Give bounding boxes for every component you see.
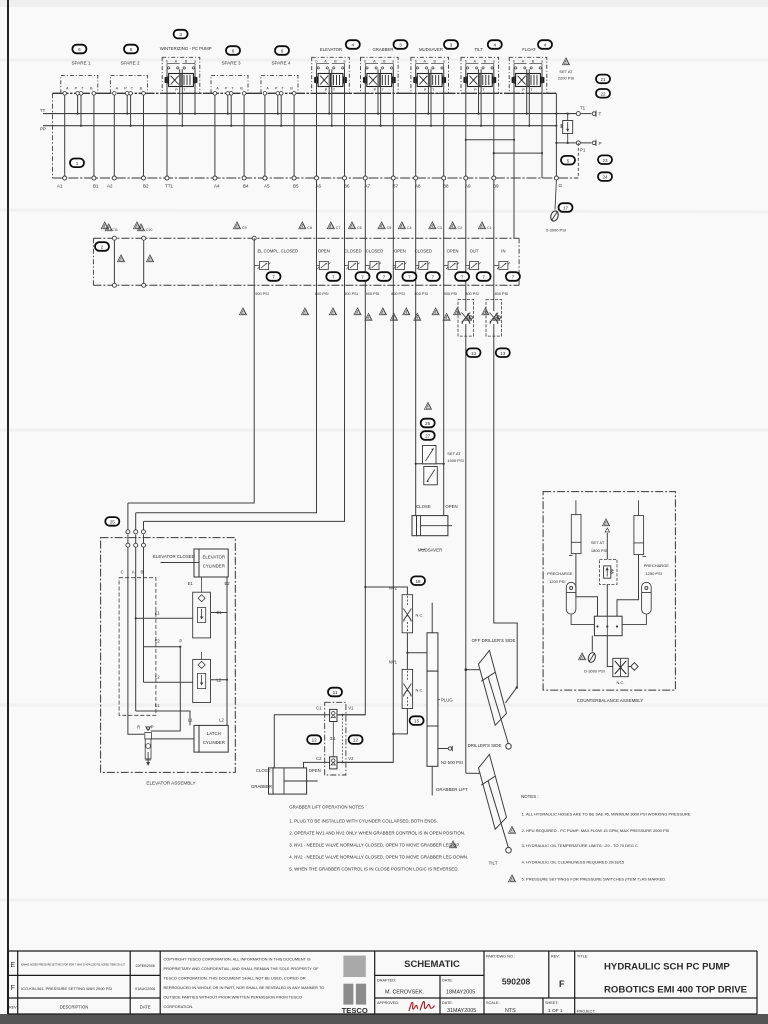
- scan left edge line: [7, 0, 9, 1016]
- balloon 12 right: [349, 735, 363, 744]
- node G: [554, 176, 558, 180]
- accumulator left: [566, 582, 594, 624]
- valve station FLOAT: [509, 57, 547, 93]
- hose break nodes at box entry: [126, 530, 146, 547]
- node T1: [576, 112, 580, 116]
- valve NC shutoff: [607, 636, 613, 667]
- balloon 12 left: [307, 735, 321, 744]
- wire A9 tilt line: [465, 69, 467, 773]
- wire A9 to cyl1 port: [466, 669, 481, 671]
- wire left closure: [52, 93, 54, 178]
- pressure switch CLOSED (mudsaver): [403, 249, 440, 321]
- port N2: [438, 748, 448, 750]
- wire spare1 A drop: [64, 95, 66, 178]
- valve station TILT: [461, 57, 499, 93]
- wire float B drop: [541, 69, 543, 178]
- wire mudsaver P stub: [430, 69, 432, 125]
- wire A7 to NV column: [365, 587, 407, 595]
- wire T1 to T port: [578, 113, 591, 115]
- wire spare4 T stub: [280, 95, 282, 126]
- pilot lines: [332, 722, 334, 757]
- valve crossport relief: [415, 446, 445, 485]
- pressure switch OPEN (elevator): [301, 249, 340, 315]
- wire float P stub: [528, 69, 530, 125]
- wire spare2 P stub: [126, 95, 128, 114]
- wire P drop: [151, 647, 181, 731]
- balloon 25: [105, 517, 119, 526]
- scan bottom dark strip: [0, 1014, 768, 1024]
- wire spare1 P stub: [77, 95, 79, 114]
- valve station WINTERIZING - PC PUMP: [162, 57, 200, 93]
- check valve R P: [137, 725, 154, 739]
- wire spare4 B drop: [293, 95, 295, 178]
- check element C2/V2: [330, 757, 337, 769]
- wire B9 tilt line: [494, 69, 517, 688]
- NOTESBLOCKS: [289, 805, 468, 872]
- wire B8 mudsaver line: [443, 69, 445, 515]
- wire C feed into box: [128, 503, 144, 734]
- wire band top line: [93, 237, 519, 239]
- wire branch to lift cylinder: [407, 652, 427, 654]
- wire V2 to B7: [337, 761, 393, 763]
- valve station SPARE 1: [61, 75, 98, 95]
- approval signature (red ink): [409, 1001, 435, 1011]
- wire float link B9: [494, 152, 542, 154]
- wire A9 to cyl2 port: [466, 772, 481, 774]
- wire band left edge: [92, 238, 94, 285]
- TESCO logo: [343, 956, 365, 977]
- valve station SPARE 4: [261, 75, 298, 95]
- cylinder counterbalance right: [634, 500, 646, 556]
- TOPSECTION: [40, 30, 612, 774]
- LOWERLEFT: [101, 503, 236, 786]
- hose C11 jumper: [113, 238, 115, 285]
- wire B7 grabber line: [337, 69, 394, 762]
- wire spare2 B drop: [143, 95, 145, 178]
- warning triangle relief: [424, 402, 431, 409]
- pressure switch CLOSED (elevator): [329, 249, 369, 315]
- warning set at 2200 psi: [562, 58, 569, 65]
- wire winterizing P stub: [181, 69, 183, 125]
- ratio valve 3:1 block: [325, 702, 346, 775]
- needle valve NV1: [389, 660, 424, 709]
- wire spare1 B drop: [93, 95, 95, 178]
- check element C1/V1: [330, 709, 337, 721]
- wire winterizing B stub: [194, 69, 196, 113]
- balloon 27: [421, 431, 435, 440]
- wire tilt T stub: [478, 69, 480, 113]
- node pivot 2: [506, 847, 512, 853]
- flow control valve (tilt in): [486, 300, 510, 358]
- wires station drops: [65, 69, 542, 773]
- TITLEBLOCK: [8, 951, 757, 1015]
- balloon 1: [70, 159, 84, 168]
- LOWERRIGHT: [465, 638, 518, 866]
- wire spare3 B drop: [243, 95, 245, 178]
- needle valve NV2: [389, 585, 424, 633]
- valve counterbalance relief: [600, 528, 618, 616]
- balloon 21: [596, 75, 610, 84]
- wire elevator P stub: [331, 69, 333, 125]
- wire C2 to grabber cylinder: [304, 762, 330, 768]
- pressure switch OPEN (mudsaver): [432, 249, 469, 321]
- wire A6 elevator line: [136, 69, 317, 513]
- counterbalance outer box: [543, 492, 675, 690]
- pressure switch OUT (tilt): [454, 249, 491, 321]
- wire E1 out to right riser: [211, 612, 228, 614]
- pressure switch IN (tilt): [482, 249, 520, 321]
- wire A feed into box: [135, 513, 137, 711]
- LOWERMID: [412, 402, 464, 552]
- wire spare2 T stub: [130, 95, 132, 126]
- pressure switch OPEN (grabber): [379, 249, 416, 321]
- pressure switch CLOSED (grabber): [354, 249, 391, 321]
- terminal labels: [57, 184, 499, 189]
- balloon 2: [95, 242, 109, 251]
- wire TT bus: [43, 113, 578, 115]
- wire NV1 bottom to B7: [393, 709, 407, 734]
- wire grabber P stub: [380, 69, 382, 125]
- balloon 26: [421, 419, 435, 428]
- cylinder tilt off-drillers: [479, 651, 509, 744]
- wire float link A9: [466, 139, 514, 141]
- mudsaver cylinder: [412, 516, 452, 536]
- wire A7 grabber line: [337, 69, 366, 715]
- balloon 15: [410, 716, 424, 725]
- wire A8 mudsaver line: [415, 69, 417, 515]
- wire B9 diagonal: [505, 687, 516, 703]
- wire NV2 to NV1: [406, 633, 408, 670]
- balloon 5: [561, 156, 575, 165]
- gauge 0-3000 psi: [555, 180, 556, 210]
- copyright text: [164, 957, 325, 1010]
- wire elevator T stub: [328, 69, 330, 113]
- wire winterizing T stub: [179, 69, 181, 113]
- wire left cylinder to manifold: [576, 554, 598, 617]
- wire C1 to grabber cylinder: [274, 715, 329, 768]
- quick disconnect stack: [145, 739, 151, 766]
- pressure switch EL COMPL CLOSED: [239, 249, 298, 315]
- node T port: [592, 112, 596, 116]
- node P port: [592, 141, 596, 145]
- wire L1 line: [136, 711, 190, 725]
- balloon 23: [598, 155, 612, 164]
- junction dots: [77, 113, 569, 155]
- wire E1 line: [136, 617, 193, 619]
- wire L2 line: [144, 681, 193, 683]
- valve system relief between T1 and P1: [567, 114, 569, 143]
- inner dashed manifold box: [119, 578, 156, 716]
- elevator assembly outer box: [101, 538, 236, 773]
- wire spare3 T stub: [230, 95, 232, 126]
- wire right riser to G: [555, 93, 557, 178]
- wire right cylinder to manifold: [617, 555, 639, 617]
- accumulator right: [622, 582, 651, 624]
- wire float A drop: [513, 69, 515, 238]
- wire spare4 A drop: [264, 95, 266, 178]
- cylinder counterbalance left: [569, 500, 581, 555]
- wire B6 elevator line: [144, 69, 345, 521]
- wire EL COMP column down to elevator assembly: [128, 238, 254, 503]
- cylinder tilt drillers: [479, 754, 509, 847]
- wire right riser: [226, 577, 228, 725]
- wire band right edge: [518, 238, 520, 285]
- balloon 24: [598, 172, 612, 181]
- latch cylinder: [194, 725, 228, 752]
- label plug: [438, 699, 440, 701]
- grabber cylinder: [269, 768, 274, 794]
- pilot check valve L2: [193, 652, 222, 703]
- wire main pressure bus: [53, 92, 557, 94]
- wire PP bus: [43, 125, 556, 127]
- wire E2 line: [144, 646, 181, 648]
- wire tilt P stub: [480, 69, 482, 125]
- gauge D-3000: [591, 636, 593, 652]
- wire spare4 P stub: [277, 95, 279, 114]
- balloon 18: [411, 576, 425, 585]
- node pivot 1: [506, 744, 512, 750]
- valve station SPARE 2: [110, 75, 147, 95]
- wire V1 to A7: [337, 714, 341, 716]
- wire grabber T stub: [377, 69, 379, 113]
- wire B feed into box: [143, 521, 145, 682]
- wire band bottom line: [93, 284, 519, 286]
- hose callout triangles: [233, 222, 491, 230]
- wire spare3 P stub: [227, 95, 229, 114]
- wire P1 line: [556, 142, 591, 144]
- table frame: [8, 951, 757, 1014]
- balloon 11: [328, 688, 342, 697]
- wire spare1 T stub: [80, 95, 82, 126]
- wire spare2 A drop: [113, 95, 115, 178]
- wire latch feed: [151, 738, 194, 740]
- wire float T stub: [526, 69, 528, 113]
- hose C10 jumper: [143, 238, 145, 285]
- pilot check valve E1: [193, 577, 223, 638]
- wire winterizing A drop to TT1: [166, 69, 168, 178]
- manifold block: [594, 616, 622, 636]
- grabber lift cylinder: [427, 603, 438, 796]
- balloon 22: [596, 89, 610, 98]
- valve station MUDSAVER: [411, 57, 449, 93]
- node C9 tap: [252, 236, 256, 240]
- elevator cylinder: [194, 549, 228, 577]
- wire L2 out: [211, 679, 228, 681]
- MIDBAND: [93, 222, 520, 503]
- wire dashed P1 drop: [577, 143, 579, 178]
- valve station ELEVATOR: [312, 57, 350, 93]
- wire mudsaver T stub: [427, 69, 429, 113]
- flow control valve (tilt out): [458, 300, 481, 358]
- wire spare3 A drop: [214, 95, 216, 178]
- valve station SPARE 3: [211, 75, 248, 95]
- wire bottom manifold bus: [53, 177, 579, 179]
- manifold terminal nodes: [63, 176, 496, 180]
- valve station GRABBER: [361, 57, 399, 93]
- node P1: [576, 141, 580, 145]
